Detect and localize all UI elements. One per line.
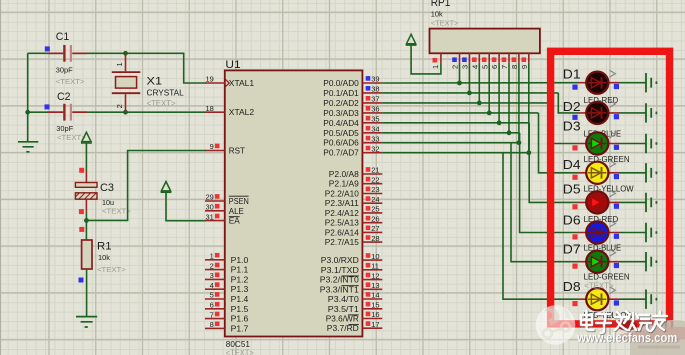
svg-text:D4: D4 [563,158,581,172]
wire: D2 cathode to ground [620,112,646,114]
svg-text:4: 4 [210,281,214,290]
pin 11 (P3.1/TXD) stub [362,269,382,271]
pin 39 (P0.0/AD0) stub [362,82,382,84]
pin 8 (RP1) stub and drop wire [518,53,520,63]
svg-text:35: 35 [371,115,379,124]
handle: C2 blue square [45,104,50,109]
handle: D5 right square [614,204,619,209]
power symbol (C3 branch) [82,132,91,141]
pin 31 (EA) stub [205,220,225,222]
wire: R1 to ground [86,269,88,317]
svg-text:P3.4/T0: P3.4/T0 [328,295,360,304]
wire: C2 row to XTAL2 pin 18 [28,111,64,113]
op: 80C51 MCU U1 body [225,70,363,336]
svg-text:8: 8 [510,65,519,69]
svg-text:P1.3: P1.3 [231,285,249,294]
svg-text:1: 1 [210,252,214,261]
svg-text:5: 5 [210,291,214,300]
svg-text:39: 39 [371,75,379,84]
LED D8 (LED-YELLOW) [578,287,620,311]
svg-text:16: 16 [371,310,379,319]
pin 14 (P3.4/T0) stub [362,298,382,300]
svg-text:29: 29 [205,193,213,202]
ground (D3) [646,134,656,153]
svg-text:LED-GREEN: LED-GREEN [584,273,630,282]
handle: D3 left square [572,145,577,150]
svg-text:3: 3 [461,65,470,69]
capacitor C3 (polarized) [75,183,97,188]
handle: D2 left square [572,115,577,120]
svg-text:33: 33 [371,134,379,143]
pin 19 (XTAL1) stub [205,82,225,84]
svg-text:10k: 10k [98,253,110,262]
svg-text:X1: X1 [147,75,163,87]
svg-text:P0.4/AD4: P0.4/AD4 [323,119,359,128]
svg-text:30: 30 [205,203,213,212]
svg-text:P1.2: P1.2 [231,275,249,284]
handle: D1 left square [572,85,577,90]
pin 5 (RP1) stub and drop wire [488,53,490,63]
pin 27 (P2.6/A14) stub [362,231,382,233]
wire: P0.3 row to D4 [382,112,538,114]
svg-text:P3.1/TXD: P3.1/TXD [321,266,359,275]
svg-text:8: 8 [210,320,214,329]
pin 38 (P0.1/AD1) stub [362,92,382,94]
svg-text:36: 36 [371,105,379,114]
svg-text:RP1: RP1 [431,0,451,9]
LED D7 (LED-GREEN) [578,249,620,273]
svg-text:P2.3/A11: P2.3/A11 [325,199,360,208]
svg-text:EA: EA [229,217,241,226]
svg-text:P3.2/INT0: P3.2/INT0 [320,276,360,285]
pin 35 (P0.4/AD4) stub [362,122,382,124]
node: RP1 pin2 / P0.0 junction [457,81,462,86]
wire: C1 row to XTAL1 pin 19 [28,52,64,54]
svg-text:P1.5: P1.5 [231,305,249,314]
svg-text:24: 24 [371,195,379,204]
wire: D3 cathode to ground [620,143,646,145]
svg-text:P0.5/AD5: P0.5/AD5 [323,129,359,138]
svg-text:31: 31 [205,212,213,221]
power symbol (RP1 pin1) [407,34,416,43]
svg-text:13: 13 [371,281,379,290]
svg-text:D8: D8 [563,280,581,294]
svg-text:10k: 10k [431,10,443,19]
wire: power to C3 [85,144,87,171]
svg-text:P0.2/AD2: P0.2/AD2 [323,99,359,108]
red highlight box around LED column [551,51,670,324]
svg-text:28: 28 [371,234,379,243]
wire: left vertical rail C1/C2 to ground [27,53,29,142]
svg-text:<TEXT>: <TEXT> [56,77,85,86]
svg-text:CRYSTAL: CRYSTAL [147,88,185,97]
wire: P0.2 row to D3 [382,102,548,104]
handle: C1 blue square [45,46,50,51]
power symbol (EA) [161,182,170,191]
pin 24 (P2.3/A11) stub [362,202,382,204]
wire: junction to R1 [85,213,87,240]
svg-text:C3: C3 [100,182,114,194]
pin 25 (P2.4/A12) stub [362,212,382,214]
svg-text:2: 2 [451,65,460,69]
wire: D6 cathode to ground [620,232,646,234]
pin 21 (P2.0/A8) stub [362,173,382,175]
pin 3 (RP1) stub and drop wire [468,53,470,63]
svg-text:P3.5/T1: P3.5/T1 [328,305,360,314]
svg-text:www.elecfans.com: www.elecfans.com [576,330,677,345]
handle: D1 right square [614,84,619,89]
pin 34 (P0.5/AD5) stub [362,132,382,134]
svg-text:17: 17 [371,320,379,329]
svg-text:<TEXT>: <TEXT> [431,18,459,27]
svg-text:PSEN: PSEN [229,197,249,206]
pin 7 (RP1) stub and drop wire [508,53,510,63]
pin 4 (P1.3) stub [205,288,225,290]
svg-text:D3: D3 [563,120,581,134]
svg-text:ALE: ALE [229,207,244,216]
handle: D4 left square [572,175,577,180]
svg-text:P2.6/A14: P2.6/A14 [325,228,360,237]
wire: D1 cathode to ground [620,82,646,84]
svg-text:D5: D5 [563,183,581,197]
svg-text:C2: C2 [57,91,71,103]
pin 26 (P2.5/A13) stub [362,222,382,224]
svg-text:10: 10 [371,252,379,261]
svg-text:P0.1/AD1: P0.1/AD1 [323,89,359,98]
svg-text:1: 1 [431,65,440,69]
ground (D4) [646,163,656,182]
pin 12 (P3.2/INT0) stub [362,279,382,281]
svg-text:XTAL1: XTAL1 [229,79,255,88]
resistor pack RP1 body [430,29,540,54]
pin 33 (P0.6/AD6) stub [362,142,382,144]
pin 1 (RP1) stub [440,53,442,63]
watermark: elecfans logo circle [536,303,576,345]
pin 13 (P3.3/INT1) stub [362,288,382,290]
node: RP1 pin8 / P0.6 junction [517,140,522,145]
handle: D8 left square [572,301,577,306]
svg-text:D6: D6 [563,213,581,227]
wire: D8 cathode to ground [620,298,646,300]
wire: power to EA pin 31 [166,193,206,221]
svg-text:<TEXT>: <TEXT> [147,99,176,108]
svg-text:P3.0/RXD: P3.0/RXD [321,256,359,265]
svg-text:18: 18 [205,104,213,113]
handle: red square above R1 [79,227,84,232]
svg-text:D7: D7 [563,243,581,257]
pin 2 (P1.1) stub [205,269,225,271]
node: RP1 pin6 / P0.4 junction [497,120,502,125]
pin 37 (P0.2/AD2) stub [362,102,382,104]
LED D5 (LED-RED) [578,190,620,213]
svg-text:7: 7 [210,310,214,319]
pin 6 (RP1) stub and drop wire [498,53,500,63]
svg-text:2: 2 [115,104,124,108]
svg-text:9: 9 [210,142,214,151]
ground (D8) [646,290,656,309]
pin 9 (RST) stub [205,150,225,152]
node: C2/rail junction [25,110,30,115]
svg-text:<TEXT>: <TEXT> [226,347,254,355]
handle: D8 right square [614,300,619,305]
svg-text:R1: R1 [97,241,112,253]
ground (D5) [646,193,656,212]
svg-text:30pF: 30pF [56,124,73,133]
svg-text:XTAL2: XTAL2 [229,108,255,117]
wire: P0.6 row to D7 [382,142,519,144]
pin 8 (P1.7) stub [205,327,225,329]
svg-text:1: 1 [115,62,124,66]
wire: D5 cathode to ground [620,201,646,203]
pin 7 (P1.6) stub [205,318,225,320]
svg-text:U1: U1 [225,59,240,71]
wire: D7 cathode to ground [620,261,646,263]
svg-text:21: 21 [371,166,379,175]
node: crystal top junction [123,51,128,56]
pin 1 (P1.0) stub [205,259,225,261]
pin 17 (P3.7/RD) stub [362,327,382,329]
svg-text:23: 23 [371,185,379,194]
wire: D4 cathode to ground [620,172,646,174]
svg-text:P2.5/A13: P2.5/A13 [325,219,360,228]
pin 4 (RP1) stub and drop wire [478,53,480,63]
wire: P0.1 row to D2 [382,92,558,94]
pin 22 (P2.1/A9) stub [362,183,382,185]
svg-text:P3.6/WR: P3.6/WR [326,315,359,324]
svg-text:P2.1/A9: P2.1/A9 [329,180,360,189]
pin 6 (P1.5) stub [205,308,225,310]
svg-text:D1: D1 [563,68,581,82]
svg-text:P2.4/A12: P2.4/A12 [325,209,360,218]
wire: P0.7 row to D8 [382,152,529,154]
svg-text:P1.4: P1.4 [231,295,249,304]
pin 10 (P3.0/RXD) stub [362,259,382,261]
pin 18 (XTAL2) stub [205,111,225,113]
svg-text:P0.6/AD6: P0.6/AD6 [323,139,359,148]
svg-text:2: 2 [210,261,214,270]
svg-text:7: 7 [500,65,509,69]
node: RP1 pin5 / P0.3 junction [487,111,492,116]
pin 3 (P1.2) stub [205,278,225,280]
LED D3 (LED-GREEN) [578,131,620,154]
svg-text:P1.0: P1.0 [231,256,249,265]
svg-text:P0.7/AD7: P0.7/AD7 [323,149,359,158]
svg-text:<TEXT>: <TEXT> [97,265,126,274]
pin 32 (P0.7/AD7) stub [362,152,382,154]
svg-text:12: 12 [371,271,379,280]
watermark: bottom-right grey patch [630,320,685,355]
LED D6 (LED-BLUE) [578,220,620,243]
handle: D7 left square [572,264,577,269]
wire: RST junction to pin 9 [86,151,206,221]
handle: D4 right square [614,174,619,179]
svg-text:5: 5 [480,65,489,69]
svg-text:P1.1: P1.1 [231,266,249,275]
pin 16 (P3.6/WR) stub [362,318,382,320]
handle: D7 right square [614,263,619,268]
ground (D2) [646,103,656,122]
svg-text:34: 34 [371,125,379,134]
svg-text:P2.7/A15: P2.7/A15 [325,238,360,247]
svg-text:14: 14 [371,291,379,300]
ground (left rail) [18,142,38,152]
svg-text:6: 6 [490,65,499,69]
svg-text:37: 37 [371,95,379,104]
svg-text:P0.0/AD0: P0.0/AD0 [323,79,359,88]
handle: D2 right square [614,114,619,119]
node: RP1 pin9 / P0.7 junction [526,150,531,155]
pin 29 (PSEN) stub [205,200,225,202]
svg-text:30pF: 30pF [56,66,73,75]
wire: C3 to junction [85,199,87,212]
handle: D5 left square [572,204,577,209]
svg-text:C1: C1 [56,31,70,43]
svg-text:P0.3/AD3: P0.3/AD3 [323,109,359,118]
svg-text:32: 32 [371,144,379,153]
svg-text:19: 19 [205,75,213,84]
pin 30 (ALE) stub [205,210,225,212]
pin 28 (P2.7/A15) stub [362,241,382,243]
svg-text:<TEXT>: <TEXT> [584,282,614,291]
pin 23 (P2.2/A10) stub [362,193,382,195]
watermark: red ellipse + swoosh [617,320,637,330]
capacitor C1 [47,45,87,62]
ground (D1) [646,73,656,92]
svg-text:22: 22 [371,175,379,184]
LED D2 (LED-BLUE) [578,101,620,125]
watermark: chinese brand text [582,312,668,334]
pin 15 (P3.5/T1) stub [362,308,382,310]
crystal X1 [125,53,127,71]
node: RST junction [84,218,89,223]
node: RP1 pin4 / P0.2 junction [477,101,482,106]
ground (R1) [76,317,97,327]
pin 36 (P0.3/AD3) stub [362,112,382,114]
svg-text:25: 25 [371,205,379,214]
wire: P0.5 row to D6 [382,132,519,134]
handle: red square below C3 [79,209,84,214]
resistor R1 [82,240,92,269]
handle: D6 right square [614,234,619,239]
svg-text:P1.7: P1.7 [231,324,249,333]
node: RP1 pin3 / P0.1 junction [467,91,472,96]
wire: RP1 pin 1 to power [411,46,441,74]
LED D1 (LED-RED) [578,70,620,94]
capacitor C2 [47,104,87,121]
wire: P0.4 row to D5 [382,122,529,124]
svg-text:4: 4 [470,65,479,69]
ground (D6) [646,223,656,242]
svg-text:D2: D2 [563,100,581,114]
node: crystal bottom junction [123,110,128,115]
ground (D7) [646,252,656,271]
handle: D6 left square [572,234,577,239]
svg-text:P3.7/RD: P3.7/RD [327,324,359,333]
handle: red square above C3 [79,168,84,173]
svg-text:RST: RST [229,147,245,156]
svg-text:27: 27 [371,224,379,233]
pin 9 (RP1) stub and drop wire [528,53,530,63]
svg-text:P3.3/INT1: P3.3/INT1 [320,285,360,294]
handle: D3 right square [614,145,619,150]
LED D4 (LED-YELLOW) [578,160,620,184]
svg-text:P2.2/A10: P2.2/A10 [325,190,360,199]
svg-text:15: 15 [371,300,379,309]
svg-text:6: 6 [210,301,214,310]
svg-text:38: 38 [371,85,379,94]
frame edge lines [0,0,2,355]
node: RP1 pin7 / P0.5 junction [507,130,512,135]
svg-text:P1.6: P1.6 [231,315,249,324]
svg-text:P2.0/A8: P2.0/A8 [329,170,360,179]
pin 5 (P1.4) stub [205,298,225,300]
svg-text:26: 26 [371,214,379,223]
svg-text:11: 11 [371,262,379,271]
handle: blue square below R1 [79,278,84,283]
svg-text:3: 3 [210,271,214,280]
svg-text:9: 9 [520,65,529,69]
pin 2 (RP1) stub and drop wire [459,53,461,63]
wire: P0.0 row to D1 [382,82,578,84]
